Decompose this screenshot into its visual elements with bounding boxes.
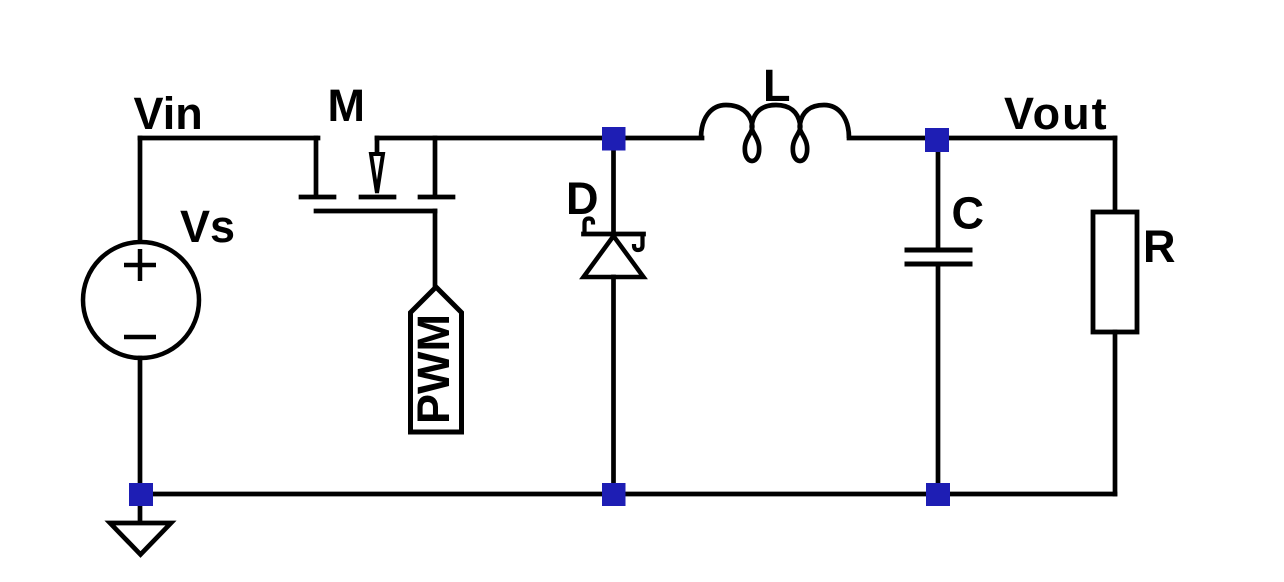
wire resistor to ground rail bbox=[1113, 332, 1118, 494]
wire node to diode bbox=[611, 138, 616, 234]
diode D schottky bbox=[584, 219, 644, 278]
wire switch node top rail bbox=[377, 136, 702, 141]
node junction ground-cap bbox=[926, 483, 950, 506]
svg-text:PWM: PWM bbox=[408, 314, 459, 424]
PWM input flag bbox=[408, 287, 462, 432]
node junction output bbox=[925, 128, 949, 152]
wire ground rail bbox=[141, 492, 1115, 497]
svg-text:D: D bbox=[566, 173, 599, 224]
inductor L bbox=[701, 105, 849, 161]
wire Vin vertical to source bbox=[138, 138, 143, 243]
svg-text:R: R bbox=[1143, 221, 1176, 272]
svg-text:C: C bbox=[952, 188, 985, 239]
transistor Q1 MOSFET bbox=[301, 138, 453, 211]
wire source bottom to ground node bbox=[138, 358, 143, 494]
svg-text:Vs: Vs bbox=[180, 201, 235, 252]
ground bbox=[110, 523, 171, 555]
wire top rail corner to resistor bbox=[1113, 138, 1118, 212]
node junction switch bbox=[602, 127, 626, 151]
svg-text:Vout: Vout bbox=[1004, 88, 1109, 139]
node junction ground-diode bbox=[602, 483, 626, 506]
wire gate to PWM bbox=[433, 211, 438, 288]
svg-text:Vin: Vin bbox=[134, 88, 203, 139]
wire diode anode to ground rail bbox=[611, 277, 616, 494]
capacitor C bbox=[907, 250, 970, 264]
wire node to capacitor bbox=[936, 139, 941, 248]
voltage source Vs bbox=[83, 242, 199, 358]
wire node to ground symbol bbox=[138, 505, 143, 523]
resistor R bbox=[1093, 212, 1137, 332]
wire capacitor to ground rail bbox=[936, 266, 941, 494]
svg-text:M: M bbox=[328, 80, 366, 131]
wire Vin horizontal to MOSFET drain bbox=[140, 136, 318, 141]
node junction ground-left bbox=[129, 483, 153, 506]
